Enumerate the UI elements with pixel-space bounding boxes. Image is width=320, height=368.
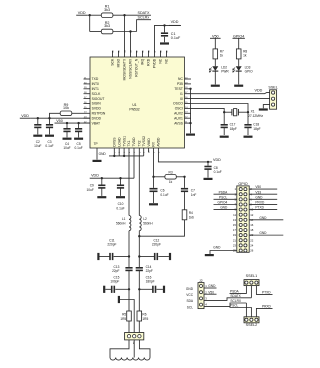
svg-text:22: 22 — [250, 238, 254, 242]
pin row 5/6 GPIO — [239, 198, 242, 201]
svg-text:220pF: 220pF — [107, 243, 116, 247]
svg-text:GND: GND — [208, 284, 216, 288]
wire to NSS/SCL/RX pin — [130, 32, 132, 52]
wire AVDD to VDD/C8 — [158, 152, 212, 162]
wire mid pin to ground — [120, 300, 134, 333]
pin AUX1 (12) right — [185, 117, 192, 119]
wire — [87, 14, 101, 16]
pin TX2 (2) bottom — [138, 148, 140, 152]
svg-text:C10: C10 — [118, 202, 124, 206]
pin row 1/2 GPIO — [239, 188, 242, 191]
resistor R9 10k — [60, 111, 72, 116]
svg-text:RSTPDN: RSTPDN — [92, 112, 106, 116]
svg-text:100pF: 100pF — [110, 279, 119, 283]
wire — [238, 38, 240, 49]
svg-text:AVSS: AVSS — [174, 121, 183, 125]
svg-text:VMID: VMID — [147, 138, 151, 147]
svg-text:0.1uF: 0.1uF — [214, 170, 222, 174]
pin row 11/12 GPIO — [239, 213, 242, 216]
pin row 15/16 GPIO — [239, 223, 242, 226]
svg-text:VDD: VDD — [213, 158, 221, 162]
wire/net GND (pin9) — [214, 209, 237, 211]
wire — [128, 231, 130, 267]
svg-text:OSCO: OSCO — [173, 102, 183, 106]
svg-text:INT0: INT0 — [92, 82, 99, 86]
pin SVDD (25) left — [84, 107, 91, 109]
svg-text:1R5: 1R5 — [142, 317, 148, 321]
pin DVDD (23) left — [84, 117, 91, 119]
wire — [238, 71, 240, 84]
capacitor C4 10uF — [66, 123, 68, 128]
svg-text:GND: GND — [259, 231, 267, 235]
svg-text:1k: 1k — [220, 53, 224, 57]
wire R9 to VDD rail — [50, 113, 61, 118]
svg-text:0.1uF: 0.1uF — [160, 193, 168, 197]
svg-text:VDD: VDD — [255, 89, 263, 93]
svg-text:NC: NC — [165, 58, 169, 63]
pin VMID (10) bottom — [148, 148, 150, 152]
node junction X1 right — [247, 111, 249, 113]
node junction C5 — [77, 122, 79, 124]
wire — [214, 71, 216, 84]
pin SIGOUT (27) left — [84, 98, 91, 100]
pin row 13/14 GPIO — [239, 218, 242, 221]
svg-text:10uF: 10uF — [63, 146, 70, 150]
pin RX (9) bottom — [153, 148, 155, 152]
svg-text:DVSS: DVSS — [113, 137, 117, 147]
svg-text:RX: RX — [152, 141, 156, 146]
node junction SDATX — [123, 14, 125, 16]
svg-text:RSTOUT_N: RSTOUT_N — [135, 58, 139, 77]
connector SSEL2 — [244, 317, 259, 323]
wire R4 to TX2 line — [139, 220, 184, 236]
pin INT1 (29) left — [84, 88, 91, 90]
wire to MOSI/SDA/TX pin — [124, 15, 126, 51]
svg-text:3k3: 3k3 — [104, 8, 110, 12]
svg-text:SCLK: SCLK — [92, 92, 102, 96]
pin DVSS (7) bottom — [113, 148, 115, 152]
pin AVDD (8) bottom — [157, 148, 159, 152]
pin SCK (36) top — [112, 51, 114, 57]
node junction AVSS — [189, 122, 191, 124]
svg-text:PSCL: PSCL — [219, 195, 228, 199]
pin RXD (38) top — [148, 51, 150, 57]
svg-text:SIGIN: SIGIN — [92, 102, 102, 106]
svg-text:PSDA: PSDA — [230, 290, 240, 294]
wire RX down — [153, 152, 155, 177]
wire/net GND (pin25) — [210, 251, 237, 255]
resistor R4 1k6 — [182, 210, 187, 220]
svg-text:R3: R3 — [169, 170, 173, 174]
ground (LD2) — [211, 85, 220, 87]
svg-text:SCK: SCK — [111, 58, 115, 66]
svg-text:L2: L2 — [143, 217, 147, 221]
pin NC (39) top — [160, 51, 162, 57]
svg-text:PN532: PN532 — [129, 108, 139, 112]
pin row 17/18 GPIO — [239, 228, 242, 231]
pin row 7/8 GPIO — [239, 203, 242, 206]
pin AUX2 (13) right — [185, 112, 192, 114]
crystal X1 27.12MHz — [231, 109, 233, 115]
svg-text:VDD: VDD — [171, 20, 179, 24]
pin NC (40) top — [166, 51, 168, 57]
svg-text:1R5: 1R5 — [120, 317, 126, 321]
wire/net PTXD (GPIO right row 5) — [249, 209, 277, 211]
resistor R5 1R5 — [127, 311, 132, 321]
pin P35 (19) right — [185, 83, 192, 85]
svg-text:MOSI/SDA/TX: MOSI/SDA/TX — [123, 58, 127, 80]
pin TVSS2 (1) bottom — [143, 148, 145, 152]
svg-text:GPIO4: GPIO4 — [218, 201, 228, 205]
svg-text:10uF: 10uF — [87, 188, 94, 192]
IC U1 PN532 body — [90, 57, 185, 148]
svg-text:15: 15 — [233, 223, 237, 227]
ground (SSEL) — [259, 108, 268, 110]
wire SSEL pin3 to ground — [263, 105, 269, 109]
svg-text:22pF: 22pF — [112, 269, 119, 273]
svg-text:TVSS1: TVSS1 — [122, 136, 126, 147]
svg-text:VDD: VDD — [91, 174, 99, 178]
svg-text:SCL: SCL — [187, 305, 193, 309]
capacitor C18 18pF — [247, 112, 249, 124]
ground (GPIO pin25) — [205, 254, 214, 256]
pin I0 (16) right — [185, 98, 192, 100]
svg-text:12: 12 — [250, 213, 254, 217]
inductor L1 560nH — [129, 216, 131, 231]
node junction C3 — [48, 117, 50, 119]
node junction VDD/R1/R2 — [89, 14, 91, 16]
svg-text:0.1uF: 0.1uF — [116, 206, 124, 210]
svg-text:SDATX: SDATX — [138, 11, 151, 15]
wire — [90, 31, 102, 33]
svg-text:SIGOUT: SIGOUT — [92, 97, 105, 101]
wire/net PRXD (GPIO right row 4) — [249, 203, 277, 205]
pin row 21/22 GPIO — [239, 239, 242, 242]
wire — [137, 20, 151, 32]
svg-text:OSCI: OSCI — [175, 107, 183, 111]
svg-text:C7: C7 — [191, 188, 195, 192]
svg-text:PRXD: PRXD — [255, 201, 265, 205]
pin INT0 (30) left — [84, 83, 91, 85]
node junction C1 — [163, 24, 165, 26]
svg-text:I0: I0 — [180, 97, 183, 101]
net label SDATX wire — [250, 286, 252, 298]
svg-text:C8: C8 — [214, 166, 218, 170]
pin TXD (21) left — [84, 78, 91, 80]
svg-text:C9: C9 — [90, 184, 94, 188]
inductor L2 560nH — [139, 216, 141, 231]
svg-text:10uF: 10uF — [34, 144, 41, 148]
svg-text:560nH: 560nH — [143, 222, 153, 226]
pin IRQ (31) top — [142, 51, 144, 57]
svg-text:TP: TP — [94, 142, 98, 146]
pin TEST (18) right — [185, 88, 192, 90]
antenna coil squiggle — [110, 358, 150, 361]
svg-text:13: 13 — [233, 218, 237, 222]
svg-text:V50: V50 — [208, 290, 214, 294]
svg-text:10k: 10k — [63, 106, 69, 110]
svg-text:18pF: 18pF — [230, 127, 237, 131]
capacitor C2 10uF — [37, 118, 39, 124]
node junction X1 left — [223, 111, 225, 113]
svg-text:NSS/SCL/RX: NSS/SCL/RX — [129, 58, 133, 79]
wire/net GND (GPIO right row 10) — [249, 234, 283, 236]
svg-text:C18: C18 — [253, 122, 259, 126]
pin LOAD (6) bottom — [118, 148, 120, 152]
wire OSCI — [191, 108, 224, 112]
svg-text:GND: GND — [99, 152, 107, 156]
pin VBAT (22) left — [84, 122, 91, 124]
svg-text:V50: V50 — [255, 185, 261, 189]
wire LOAD down — [118, 152, 120, 156]
svg-text:V33: V33 — [255, 190, 261, 194]
wire TVSS2 down — [143, 152, 145, 156]
ground (TP) — [93, 160, 102, 162]
svg-text:GND: GND — [213, 246, 221, 250]
svg-text:19: 19 — [233, 233, 237, 237]
svg-text:V50: V50 — [56, 119, 63, 123]
resistor R1 3k3 — [101, 13, 113, 18]
wire/net GND (GPIO right row 3) — [249, 198, 277, 200]
wire — [113, 31, 137, 33]
wire SSEL2 pin3 to PRXD — [256, 308, 272, 316]
wire TVSS1 down — [123, 152, 125, 156]
pin MOSI/SDA/TX (34) top — [124, 51, 126, 57]
wire/net GND (GPIO right row 7) — [249, 219, 283, 221]
pin row 3/4 GPIO — [239, 193, 242, 196]
pin PVDD (37) top — [154, 51, 156, 57]
net label SCLRX wire — [245, 303, 247, 317]
svg-text:1k6: 1k6 — [189, 215, 194, 219]
svg-text:0.1uF: 0.1uF — [171, 36, 181, 40]
pin I1 (17) right — [185, 93, 192, 95]
svg-text:1nF: 1nF — [191, 193, 197, 197]
resistor R7 1k — [213, 49, 218, 59]
capacitor C9 10uF — [101, 178, 103, 184]
svg-text:GPIO: GPIO — [238, 182, 247, 186]
svg-text:11: 11 — [233, 213, 236, 217]
svg-text:SCLRX: SCLRX — [230, 299, 242, 303]
svg-text:23: 23 — [233, 243, 237, 247]
pin row 19/20 GPIO — [239, 234, 242, 237]
svg-text:VCC: VCC — [186, 293, 193, 297]
svg-text:I1: I1 — [180, 92, 183, 96]
capacitor C5 0.1uF — [78, 123, 80, 128]
ground (C17) — [220, 136, 229, 138]
svg-text:SSEL1: SSEL1 — [246, 274, 257, 278]
wire — [128, 289, 130, 311]
pin NSS/SCL/RX (33) top — [130, 51, 132, 57]
resistor R8 1k — [236, 49, 241, 59]
resistor R2 3k3 — [101, 29, 113, 34]
capacitor C1 0.1uF — [164, 25, 166, 32]
svg-text:220pF: 220pF — [152, 243, 161, 247]
svg-text:SVDD: SVDD — [92, 107, 102, 111]
wire OSCO — [191, 104, 248, 113]
svg-text:GPIO: GPIO — [245, 69, 253, 73]
svg-text:SSEL2: SSEL2 — [246, 323, 257, 327]
ground (C1) — [160, 42, 169, 44]
svg-text:VDD: VDD — [21, 114, 29, 118]
svg-text:SSEL: SSEL — [268, 86, 277, 90]
wire TEST/AVSS to ground — [190, 89, 192, 134]
resistor R3 1k — [154, 176, 165, 178]
wire PVDD to VDD rail — [155, 25, 182, 51]
svg-text:INT1: INT1 — [92, 87, 99, 91]
pin TVDD (3) bottom — [133, 148, 135, 152]
svg-text:17: 17 — [233, 228, 237, 232]
svg-text:SCLRx: SCLRx — [138, 16, 150, 20]
wire — [100, 177, 134, 179]
wire I1 to SSEL pin1 — [191, 93, 270, 94]
pin OSCI (14) right — [185, 107, 192, 109]
wire I0 to SSEL pin2 — [191, 98, 270, 100]
pin TX1 (4) bottom — [128, 148, 130, 152]
resistor R6 1R5 — [137, 311, 142, 321]
svg-text:SDA: SDA — [186, 299, 193, 303]
svg-text:TX2: TX2 — [138, 140, 142, 146]
capacitor C7 1nF — [184, 177, 186, 188]
svg-text:LOAD: LOAD — [117, 137, 121, 147]
svg-text:0.1uF: 0.1uF — [45, 144, 53, 148]
pin MISO (35) top — [118, 51, 120, 57]
svg-text:RXD: RXD — [147, 58, 151, 66]
ground (C18) — [244, 136, 253, 138]
svg-text:PTXD: PTXD — [255, 206, 264, 210]
LED LD3 GPIO — [236, 66, 242, 71]
ground (AVSS) — [186, 134, 195, 136]
svg-text:AUX1: AUX1 — [174, 116, 183, 120]
svg-text:PWR: PWR — [221, 69, 229, 73]
svg-text:DVDD: DVDD — [92, 116, 102, 120]
svg-text:TVDD: TVDD — [132, 137, 136, 147]
svg-text:TEST: TEST — [174, 87, 183, 91]
svg-text:GND: GND — [259, 216, 267, 220]
pin row 23/24 GPIO — [239, 244, 242, 247]
svg-text:PSDA: PSDA — [219, 190, 229, 194]
capacitor C17 18pF — [223, 112, 225, 124]
wire/net PSCL (pin5) — [214, 198, 237, 200]
pin NC (20) right — [185, 78, 192, 80]
pin AVSS (11) right — [185, 122, 192, 124]
svg-text:AVDD: AVDD — [157, 137, 161, 147]
node junction SCLRx — [129, 30, 131, 32]
wire/net GPIO4 (pin7) — [214, 204, 237, 206]
svg-text:C6: C6 — [160, 188, 164, 192]
svg-text:X1: X1 — [251, 109, 255, 113]
svg-text:GND: GND — [220, 206, 228, 210]
svg-text:SDATX: SDATX — [230, 294, 241, 298]
pin TVSS1 (5) bottom — [123, 148, 125, 152]
node junction C4 — [66, 122, 68, 124]
svg-text:180pF: 180pF — [146, 279, 155, 283]
svg-text:22pF: 22pF — [146, 269, 153, 273]
wire TX1 down — [128, 152, 130, 215]
wire — [224, 111, 232, 113]
svg-text:0.1uF: 0.1uF — [75, 146, 83, 150]
wire DVSS down — [113, 152, 115, 156]
svg-text:P35: P35 — [177, 82, 183, 86]
svg-text:TXD: TXD — [92, 77, 99, 81]
pin OSCO (15) right — [185, 103, 192, 105]
pin RSTOUT_N (32) top — [136, 51, 138, 57]
svg-text:24: 24 — [250, 243, 254, 247]
wire GND bus — [109, 155, 144, 157]
svg-text:VDD: VDD — [78, 11, 86, 15]
svg-text:1k: 1k — [169, 180, 173, 184]
svg-text:1k: 1k — [243, 53, 247, 57]
capacitor C10 0.1uF — [120, 178, 122, 184]
svg-text:PRXD: PRXD — [262, 305, 272, 309]
svg-text:L1: L1 — [122, 217, 126, 221]
wire — [128, 321, 130, 333]
net label PSCL wire — [230, 308, 252, 317]
svg-text:21: 21 — [233, 238, 237, 242]
wire — [214, 59, 216, 66]
svg-text:PTXD: PTXD — [262, 291, 271, 295]
ground (LD3) — [234, 85, 243, 87]
svg-text:18pF: 18pF — [253, 127, 260, 131]
svg-text:MISO: MISO — [117, 58, 121, 67]
svg-text:AUX2: AUX2 — [174, 112, 183, 116]
wire/net V33 (GPIO right row 2) — [249, 193, 277, 195]
node junction TEST — [189, 88, 191, 90]
wire/net V50 (GPIO right row 1) — [249, 188, 277, 190]
connector antenna header — [125, 333, 144, 340]
pin SCLK (28) left — [84, 93, 91, 95]
svg-text:PVDD: PVDD — [153, 58, 157, 68]
LED LD2 PWR — [212, 66, 218, 71]
ground (antenna mid) — [118, 296, 120, 303]
svg-text:GND: GND — [186, 287, 194, 291]
capacitor C3 0.1uF — [49, 118, 51, 124]
wire — [89, 15, 91, 31]
svg-text:3k3: 3k3 — [104, 24, 110, 28]
svg-text:16: 16 — [250, 223, 254, 227]
svg-text:VBAT: VBAT — [92, 121, 101, 125]
wire R9 to RSTPDN — [72, 112, 84, 114]
pin RSTPDN (24) left — [84, 112, 91, 114]
svg-text:PSCL: PSCL — [230, 304, 239, 308]
svg-text:C17: C17 — [230, 122, 236, 126]
node junction C2 — [37, 117, 39, 119]
wire TX2 down — [138, 152, 140, 215]
wire SSEL1 pin3 to PTXD — [256, 286, 272, 295]
wire — [113, 14, 137, 16]
net label PSDA wire — [230, 286, 247, 294]
wire — [238, 59, 240, 66]
wire — [214, 38, 216, 49]
svg-text:560nH: 560nH — [116, 222, 126, 226]
wire TVDD down to VDD rail — [133, 152, 135, 178]
svg-text:IRQ: IRQ — [141, 58, 145, 64]
capacitor C8 0.1uF — [207, 162, 209, 166]
wire VDD rail to DVDD — [30, 117, 90, 119]
capacitor C6 0.1uF — [153, 177, 155, 188]
svg-text:TX1: TX1 — [127, 140, 131, 146]
svg-text:27.12MHz: 27.12MHz — [248, 114, 263, 118]
antenna loop — [110, 340, 129, 358]
svg-text:TVSS2: TVSS2 — [142, 136, 146, 147]
svg-text:26: 26 — [250, 249, 254, 253]
pin row 9/10 GPIO — [239, 208, 242, 211]
pin row 25/26 GPIO — [239, 249, 242, 252]
wire — [138, 231, 140, 267]
svg-text:NC: NC — [178, 77, 183, 81]
svg-text:NC: NC — [159, 58, 163, 63]
svg-text:U1: U1 — [132, 103, 136, 107]
pin SIGIN (26) left — [84, 103, 91, 105]
